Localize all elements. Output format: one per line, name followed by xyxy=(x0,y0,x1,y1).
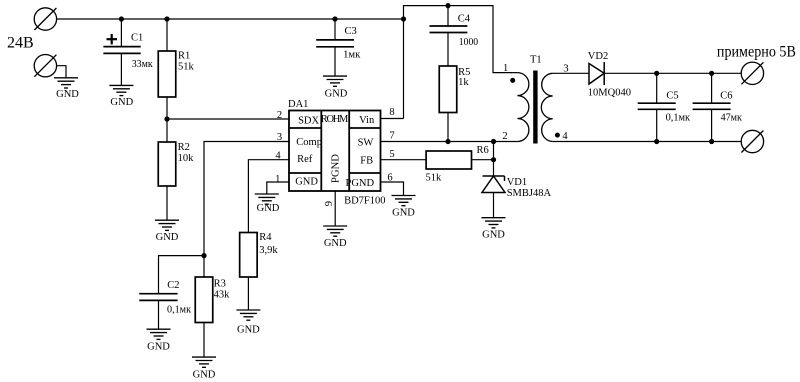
ground C3 xyxy=(323,76,347,86)
resistor R5 xyxy=(439,66,457,113)
svg-text:GND: GND xyxy=(257,203,280,214)
diode VD2 10MQ040 xyxy=(589,62,604,85)
svg-text:VD2: VD2 xyxy=(588,51,608,62)
wire R4 bottom to gnd xyxy=(247,277,249,310)
wire pin8 stub xyxy=(381,118,404,120)
T1 secondary winding xyxy=(541,73,552,141)
svg-text:C5: C5 xyxy=(666,91,678,102)
ground pin6 xyxy=(392,196,416,206)
wire VD2 to output plus xyxy=(604,72,741,74)
svg-text:1: 1 xyxy=(503,63,508,74)
junction C6 top xyxy=(709,71,714,76)
svg-text:R3: R3 xyxy=(214,278,226,289)
svg-text:7: 7 xyxy=(389,131,394,142)
svg-text:Ref: Ref xyxy=(297,154,313,165)
svg-text:GND: GND xyxy=(392,208,415,219)
svg-text:ROHM: ROHM xyxy=(321,114,349,125)
svg-text:GND: GND xyxy=(237,325,260,336)
ground R3 xyxy=(192,357,216,367)
wire VD1 bottom to gnd xyxy=(493,193,495,218)
junction R5 SW xyxy=(445,139,450,144)
wire C6 bottom xyxy=(711,109,713,141)
svg-text:SMBJ48A: SMBJ48A xyxy=(507,188,552,199)
resistor R2 xyxy=(158,142,176,186)
svg-text:C2: C2 xyxy=(167,280,179,291)
terminal output plus xyxy=(741,62,763,84)
svg-text:51k: 51k xyxy=(178,62,195,73)
svg-text:GND: GND xyxy=(193,369,216,380)
wire C6 top xyxy=(711,73,713,103)
wire top main rail xyxy=(57,18,404,20)
svg-text:C1: C1 xyxy=(131,32,143,43)
svg-text:4: 4 xyxy=(275,150,281,161)
capacitor C2 xyxy=(139,294,177,301)
wire pin2 SDX xyxy=(167,118,289,120)
resistor R3 xyxy=(195,277,213,323)
resistor R6 xyxy=(426,151,471,169)
wire C1 top xyxy=(120,19,122,47)
wire SW to transformer pin2 xyxy=(381,141,518,143)
T1 phase dot primary xyxy=(510,78,515,83)
terminal input plus xyxy=(34,8,56,30)
capacitor C4 xyxy=(430,26,468,33)
junction C1 top rail xyxy=(119,16,124,21)
svg-text:6: 6 xyxy=(387,173,392,184)
svg-text:3: 3 xyxy=(563,63,568,74)
svg-text:1k: 1k xyxy=(458,77,469,88)
ground C1 xyxy=(109,85,133,95)
svg-text:SW: SW xyxy=(358,138,374,149)
wire Vin vertical riser xyxy=(404,6,518,119)
svg-text:BD7F100: BD7F100 xyxy=(344,195,385,206)
svg-text:GND: GND xyxy=(110,97,133,108)
svg-text:33мк: 33мк xyxy=(132,59,154,70)
wire pin4 Ref down xyxy=(248,160,289,233)
junction C5 top xyxy=(654,71,659,76)
wire C2 bottom to gnd xyxy=(158,300,160,329)
wire pin3 Comp down xyxy=(204,142,289,278)
svg-text:PGND: PGND xyxy=(346,178,375,189)
svg-text:SDX: SDX xyxy=(298,116,319,127)
svg-text:GND: GND xyxy=(482,230,505,241)
T1 primary winding xyxy=(517,73,528,142)
ground pin1 xyxy=(255,194,279,204)
wire R3 bottom to gnd xyxy=(203,323,205,358)
svg-text:C3: C3 xyxy=(345,26,357,37)
svg-text:T1: T1 xyxy=(530,55,542,66)
wire R1 bottom to R2 top xyxy=(166,97,168,142)
ground R4 xyxy=(236,310,260,320)
capacitor C6 xyxy=(693,103,731,109)
wire C4 bottom to R5 xyxy=(447,33,449,67)
junction C5 bottom xyxy=(654,139,659,144)
svg-text:4: 4 xyxy=(562,131,568,142)
T1 core xyxy=(533,71,537,144)
capacitor C5 xyxy=(638,103,676,109)
wire pin6 to gnd xyxy=(381,182,404,196)
wire VD1 top xyxy=(493,142,495,177)
wire secondary bottom to output minus xyxy=(553,141,742,143)
wire R6 right xyxy=(472,159,494,161)
svg-text:3,9k: 3,9k xyxy=(259,245,278,256)
resistor R1 xyxy=(158,51,176,97)
wire input minus stub xyxy=(56,66,66,78)
T1 phase dot secondary xyxy=(555,133,560,138)
terminal input minus xyxy=(34,54,56,76)
junction C4 top xyxy=(445,3,450,8)
svg-text:VD1: VD1 xyxy=(507,177,527,188)
svg-text:8: 8 xyxy=(389,107,394,118)
svg-text:R4: R4 xyxy=(259,232,272,243)
capacitor C1 xyxy=(103,47,140,54)
wire R2 bottom to gnd xyxy=(166,186,168,220)
svg-text:0,1мк: 0,1мк xyxy=(666,112,691,123)
svg-text:51k: 51k xyxy=(426,173,443,184)
wire pin1 to gnd xyxy=(267,182,289,194)
svg-text:C6: C6 xyxy=(720,91,732,102)
svg-text:47мк: 47мк xyxy=(721,112,743,123)
wire C1 bottom to gnd xyxy=(120,53,122,85)
capacitor C3 xyxy=(316,40,354,47)
svg-text:R6: R6 xyxy=(477,145,489,156)
svg-text:1000: 1000 xyxy=(459,37,478,48)
resistor R4 xyxy=(240,233,258,278)
junction R1 top rail xyxy=(164,16,169,21)
wire secondary top to VD2 xyxy=(553,72,589,74)
svg-text:R2: R2 xyxy=(178,142,190,153)
svg-text:1мк: 1мк xyxy=(343,50,361,61)
junction C2 R3 comp xyxy=(201,253,206,258)
wire pin9 to gnd xyxy=(334,191,336,226)
junction Vin riser top rail xyxy=(401,16,406,21)
wire C3 bottom to gnd xyxy=(334,47,336,76)
svg-text:24В: 24В xyxy=(7,35,34,52)
ground VD1 xyxy=(482,218,506,228)
svg-text:GND: GND xyxy=(147,342,170,353)
wire C5 top xyxy=(656,73,658,103)
svg-text:R1: R1 xyxy=(178,50,190,61)
svg-text:PGND: PGND xyxy=(331,154,342,183)
svg-text:C4: C4 xyxy=(458,14,471,25)
svg-text:GND: GND xyxy=(156,232,179,243)
svg-text:5: 5 xyxy=(389,149,394,160)
ground R2 xyxy=(155,220,179,230)
svg-text:0,1мк: 0,1мк xyxy=(167,305,192,316)
svg-text:43k: 43k xyxy=(214,290,231,301)
wire C3 top xyxy=(334,19,336,40)
svg-text:GND: GND xyxy=(325,88,348,99)
svg-text:2: 2 xyxy=(277,110,282,121)
wire R1 top xyxy=(166,19,168,51)
junction R1 R2 pin2 xyxy=(164,116,169,121)
svg-text:3: 3 xyxy=(277,132,282,143)
junction VD1 SW xyxy=(491,139,496,144)
wire FB stub xyxy=(381,159,427,161)
wire C4 top xyxy=(447,6,449,27)
ground pin9 xyxy=(323,226,347,236)
svg-text:Vin: Vin xyxy=(359,115,375,126)
svg-text:2: 2 xyxy=(502,131,507,142)
svg-text:Comp: Comp xyxy=(296,137,322,148)
svg-text:10k: 10k xyxy=(178,153,195,164)
svg-text:DA1: DA1 xyxy=(288,99,308,110)
junction C6 bottom xyxy=(709,139,714,144)
svg-text:GND: GND xyxy=(295,177,318,188)
wire C2 branch xyxy=(159,256,205,294)
svg-text:GND: GND xyxy=(324,238,347,249)
ground input minus xyxy=(54,78,78,88)
wire R5 bottom xyxy=(447,113,449,142)
svg-text:примерно 5В: примерно 5В xyxy=(717,43,796,60)
IC DA1 BD7F100 xyxy=(289,111,381,192)
svg-text:9: 9 xyxy=(324,201,335,206)
ground C2 xyxy=(147,329,171,339)
svg-text:GND: GND xyxy=(56,89,79,100)
junction R6 VD1 xyxy=(491,157,496,162)
terminal output minus xyxy=(741,130,763,152)
svg-text:FB: FB xyxy=(360,155,373,166)
svg-text:1: 1 xyxy=(275,174,280,185)
svg-text:10MQ040: 10MQ040 xyxy=(588,88,631,99)
junction C3 top rail xyxy=(332,16,337,21)
diode VD1 TVS SMBJ48A xyxy=(482,176,505,193)
wire C5 bottom xyxy=(656,109,658,141)
